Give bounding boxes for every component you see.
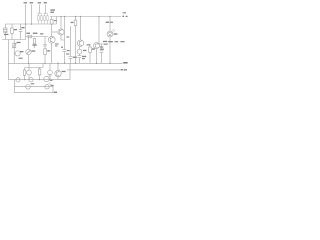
wire x70 link H4-H7 xyxy=(69,63,71,79)
wire terminal1 drop xyxy=(25,5,27,25)
wire resistor drops to bus xyxy=(38,14,47,24)
node output terminal xyxy=(121,69,123,70)
trimpot below Q3 xyxy=(79,46,81,49)
capacitor C2 coupling xyxy=(28,35,32,38)
wire x43 link up xyxy=(42,63,44,67)
wire left bus H2 xyxy=(5,23,56,25)
wire mic ground bus H3 xyxy=(2,39,26,41)
wire long bus H4 xyxy=(8,62,122,64)
wire signal line y36.5 xyxy=(26,36,49,38)
transistor Q1 xyxy=(48,36,55,43)
transistor Q3 xyxy=(80,17,82,41)
capacitor C11 on H8a xyxy=(45,85,49,89)
node antenna mark xyxy=(123,16,125,17)
transistor Q6 xyxy=(28,63,30,70)
label above antenna xyxy=(123,12,126,13)
node +V terminal label 4 xyxy=(44,2,47,3)
resistor R9 H1 to H2 xyxy=(51,17,53,20)
wire vertical x70.5 xyxy=(70,26,72,56)
wire x14.5 down xyxy=(14,80,16,93)
label C1 xyxy=(21,27,24,28)
wire Q1-Q2 base link xyxy=(52,31,58,33)
resistor R5 xyxy=(44,16,46,21)
capacitor C8 xyxy=(101,44,103,50)
label above LED xyxy=(106,22,109,23)
transistor Q8 on H7 xyxy=(16,78,20,82)
resistor R10 xyxy=(75,17,77,21)
label near H1 left xyxy=(50,9,55,10)
label bottom xyxy=(54,92,57,93)
capacitor C12 xyxy=(24,68,26,71)
label Q1 xyxy=(55,43,59,44)
label MIC xyxy=(4,34,8,35)
microphone MIC xyxy=(4,24,6,28)
wire H1-H2 link xyxy=(56,17,58,25)
label C8 xyxy=(100,46,103,47)
label R11 xyxy=(92,48,95,49)
resistor R11 xyxy=(89,44,91,47)
label C3 plus xyxy=(61,47,63,48)
label C7 xyxy=(82,56,86,57)
resistor R8 xyxy=(44,37,46,49)
wire mid bus H8a xyxy=(15,86,54,88)
component small circle xyxy=(49,63,51,70)
wire bottom bus H8b xyxy=(15,92,54,94)
wire x8 xyxy=(7,40,9,80)
label VR1 xyxy=(32,50,36,51)
label C4 xyxy=(73,57,77,58)
wire x14 xyxy=(13,40,15,64)
wire Q2 emitter xyxy=(61,35,65,40)
label D1 xyxy=(114,33,118,34)
wire vertical x64.5 xyxy=(64,17,66,50)
wire x53 link xyxy=(52,85,54,93)
capacitor C7 polarized xyxy=(78,55,82,57)
transistor Q9 on H7 xyxy=(29,78,33,82)
label H4 right end xyxy=(123,62,127,64)
capacitor C4 xyxy=(69,55,73,57)
transistor Q10 on H8a xyxy=(26,85,31,90)
capacitor C6 top plate xyxy=(44,12,48,14)
wire terminal2 drop xyxy=(31,5,33,25)
LED D3 on H7 xyxy=(44,76,49,81)
node +V terminal label 2 xyxy=(30,2,33,3)
resistor R6 xyxy=(47,16,49,21)
label row right block xyxy=(108,41,113,42)
label R10 xyxy=(71,22,74,23)
wire right vertical of mic block xyxy=(25,24,27,40)
small transistor Q5 xyxy=(15,51,20,56)
label R9 xyxy=(54,20,57,21)
wire y44 stub xyxy=(97,43,109,45)
transistor Q2 xyxy=(58,29,64,35)
resistor R1 xyxy=(11,24,13,28)
node +V terminal label 1 xyxy=(24,2,27,3)
label Q7 xyxy=(62,71,66,72)
junction dots xyxy=(24,16,111,80)
resistor R4 xyxy=(41,16,43,21)
resistor R13 xyxy=(39,68,41,70)
transistor Q4 xyxy=(98,17,100,45)
trimmer VR1 xyxy=(28,37,30,50)
wire sub-line y67.5 xyxy=(25,67,44,69)
label Q5 xyxy=(20,51,23,52)
wire terminal4 drop xyxy=(45,5,47,14)
capacitor C3 polarized xyxy=(63,48,67,50)
wire Q1 emitter xyxy=(51,43,53,63)
wire terminal3 drop xyxy=(39,5,41,14)
label above stub xyxy=(103,41,107,42)
LED D1 xyxy=(107,31,113,37)
capacitor on R8 branch xyxy=(43,44,46,46)
wire bottom bus H7 xyxy=(8,79,70,81)
resistor R7 xyxy=(34,37,36,40)
node +V terminal label 3 xyxy=(38,2,41,3)
wire top bus H1 xyxy=(50,16,121,18)
wire Q1 collector xyxy=(51,24,53,36)
label row above xyxy=(26,33,30,34)
capacitor C1 xyxy=(20,24,22,30)
LED D1 branch xyxy=(109,17,111,31)
transistor Q7 xyxy=(57,63,59,70)
trimmer VR2 xyxy=(13,43,16,47)
label R1 xyxy=(14,29,17,30)
wire Q2 collector xyxy=(60,17,62,29)
capacitor C5 top plate xyxy=(38,12,42,14)
resistor R3 xyxy=(38,16,40,21)
label R8 xyxy=(47,50,50,51)
label VR2 xyxy=(17,42,21,43)
wire output line H5 xyxy=(67,69,121,71)
